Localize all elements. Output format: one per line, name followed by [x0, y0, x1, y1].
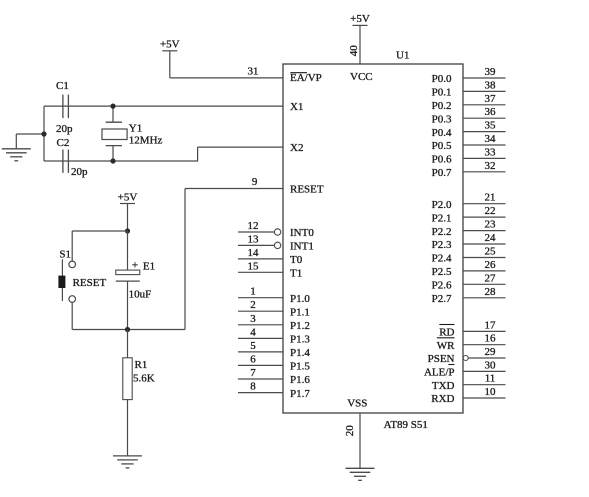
svg-text:P1.0: P1.0	[290, 293, 310, 305]
wire pin 4 (P1.3)	[238, 337, 283, 339]
svg-text:23: 23	[485, 219, 497, 231]
pin name P1.6	[290, 374, 310, 386]
pin name X1	[290, 101, 303, 113]
wire pin 17 (RD)	[463, 330, 506, 332]
svg-text:28: 28	[485, 286, 497, 298]
svg-text:39: 39	[485, 66, 497, 78]
svg-text:35: 35	[485, 120, 497, 132]
pin name P0.0	[432, 73, 452, 85]
pin name RD	[439, 325, 454, 339]
wire pin 16 (WR)	[463, 344, 506, 346]
wire pin 3 (P1.2)	[238, 324, 283, 326]
svg-text:P1.1: P1.1	[290, 306, 310, 318]
svg-text:X1: X1	[290, 101, 303, 113]
value 20p (C2)	[71, 166, 88, 178]
wire pin 23 (P2.2)	[463, 230, 506, 232]
svg-text:P0.4: P0.4	[432, 127, 452, 139]
svg-text:5.6K: 5.6K	[133, 372, 155, 384]
wire pin 22 (P2.1)	[463, 216, 506, 218]
svg-text:RESET: RESET	[73, 277, 107, 289]
wire EA/VP pin 31	[170, 77, 283, 79]
pin name X2	[290, 142, 303, 154]
svg-text:+5V: +5V	[118, 192, 138, 204]
wire pin 39 (P0.0)	[463, 77, 506, 79]
svg-text:P0.0: P0.0	[432, 73, 452, 85]
pin number 24	[485, 232, 497, 244]
label Y1	[129, 123, 142, 135]
pin number 13	[248, 233, 260, 245]
label VCC	[350, 71, 373, 83]
wire pin 38 (P0.1)	[463, 90, 506, 92]
wire pin 8 (P1.7)	[238, 392, 283, 394]
svg-text:26: 26	[485, 259, 497, 271]
pin name P1.7	[290, 388, 310, 400]
svg-text:S1: S1	[59, 248, 71, 260]
pin number 14	[248, 247, 260, 259]
svg-text:P2.2: P2.2	[432, 226, 452, 238]
svg-text:PSEN: PSEN	[428, 353, 455, 365]
wire pin 2 (P1.1)	[238, 310, 283, 312]
wire E1 bottom stem	[127, 281, 129, 329]
label C1	[56, 80, 69, 92]
wire ground tap vertical	[15, 134, 17, 149]
wire ground tap horizontal	[16, 133, 44, 135]
svg-text:P2.4: P2.4	[432, 253, 452, 265]
pin number 30	[485, 359, 497, 371]
power +5V (EA/VP)	[160, 39, 180, 51]
svg-text:6: 6	[250, 353, 256, 365]
pin name P1.0	[290, 293, 310, 305]
wire pin 33 (P0.6)	[463, 157, 506, 159]
wire pin 12 (INT0)	[238, 231, 274, 233]
wire pin 11 (TXD)	[463, 384, 506, 386]
svg-text:36: 36	[485, 106, 497, 118]
pin 29 inversion bubble	[463, 356, 468, 361]
svg-text:INT0: INT0	[290, 227, 314, 239]
svg-text:24: 24	[485, 232, 497, 244]
svg-text:37: 37	[485, 93, 497, 105]
svg-text:5: 5	[250, 340, 256, 352]
svg-text:VSS: VSS	[347, 398, 367, 410]
pin number 5	[250, 340, 256, 352]
svg-text:29: 29	[485, 346, 497, 358]
label S1	[59, 248, 71, 260]
svg-text:12MHz: 12MHz	[129, 134, 163, 146]
pin number 11	[485, 373, 496, 385]
wire pin 32 (P0.7)	[463, 171, 506, 173]
svg-text:13: 13	[248, 233, 260, 245]
svg-text:1: 1	[250, 286, 256, 298]
pin number 3	[250, 313, 256, 325]
svg-text:EA/VP: EA/VP	[290, 72, 322, 84]
wire pin 10 (RXD)	[463, 397, 506, 399]
wire pin 25 (P2.4)	[463, 257, 506, 259]
wire X2 step vertical	[197, 147, 199, 161]
svg-text:C2: C2	[57, 137, 70, 149]
wire pin 24 (P2.3)	[463, 243, 506, 245]
ground (VSS)	[346, 468, 375, 480]
svg-text:P0.7: P0.7	[432, 167, 452, 179]
svg-text:P1.7: P1.7	[290, 388, 310, 400]
power +5V (VCC)	[350, 13, 370, 26]
svg-text:P1.4: P1.4	[290, 347, 310, 359]
svg-text:30: 30	[485, 359, 497, 371]
svg-text:4: 4	[250, 326, 256, 338]
wire E1 top stem	[127, 231, 129, 270]
label AT89S51	[384, 419, 428, 431]
pin name P2.7	[432, 293, 452, 305]
pin name WR	[437, 338, 455, 352]
node reset bottom junction	[125, 327, 130, 332]
svg-text:RD: RD	[439, 327, 454, 339]
svg-text:7: 7	[250, 367, 256, 379]
pin number 37	[485, 93, 497, 105]
svg-text:Y1: Y1	[129, 123, 142, 135]
pin number 21	[485, 192, 496, 204]
svg-text:P2.3: P2.3	[432, 239, 452, 251]
wire X2 net bottom horizontal	[44, 160, 198, 162]
svg-text:10: 10	[485, 386, 497, 398]
pin number 29	[485, 346, 497, 358]
pin name PSEN	[428, 353, 455, 365]
wire pin 29 (PSEN)	[468, 357, 505, 359]
svg-text:P2.6: P2.6	[432, 280, 452, 292]
svg-text:T1: T1	[290, 268, 302, 280]
capacitor C1	[63, 95, 69, 119]
label RESET (switch)	[73, 277, 107, 289]
svg-text:P2.5: P2.5	[432, 266, 452, 278]
pin name P0.6	[432, 154, 452, 166]
wire switch bottom vertical	[71, 302, 73, 329]
svg-text:27: 27	[485, 272, 497, 284]
wire pin 21 (P2.0)	[463, 203, 506, 205]
pin number 26	[485, 259, 497, 271]
svg-text:RESET: RESET	[290, 184, 324, 196]
pin number 33	[485, 146, 497, 158]
svg-text:8: 8	[250, 381, 256, 393]
svg-text:10uF: 10uF	[129, 289, 152, 301]
wire X2 horizontal to IC	[198, 146, 283, 148]
pin number 8	[250, 381, 256, 393]
pin name P2.6	[432, 280, 452, 292]
pin number 16	[485, 333, 497, 345]
wire VCC pin 40 stem	[359, 25, 361, 64]
pin number 34	[485, 133, 497, 145]
wire R1 bottom stem	[127, 400, 129, 456]
svg-text:R1: R1	[135, 359, 148, 371]
wire pin 34 (P0.5)	[463, 144, 506, 146]
wire bottom junction horizontal	[72, 329, 185, 331]
resistor R1	[123, 358, 132, 400]
svg-text:20p: 20p	[56, 123, 73, 135]
pin name RXD	[431, 393, 454, 405]
pin name EA/VP	[290, 72, 322, 84]
svg-text:P0.2: P0.2	[432, 100, 452, 112]
node reset top junction	[125, 228, 130, 233]
pin name T1	[290, 268, 302, 280]
svg-text:38: 38	[485, 79, 497, 91]
label R1	[135, 359, 148, 371]
svg-text:+5V: +5V	[160, 39, 180, 51]
pin number 10	[485, 386, 497, 398]
label E1	[143, 261, 155, 273]
pin name INT0	[290, 227, 314, 239]
pin name P2.2	[432, 226, 452, 238]
crystal Y1	[102, 106, 127, 161]
wire pin 13 (INT1)	[238, 244, 274, 246]
pin name P1.5	[290, 361, 310, 373]
wire +5V stem to EA/VP	[169, 51, 171, 78]
wire RESET vertical	[184, 189, 186, 330]
svg-text:+: +	[132, 259, 138, 271]
svg-text:T0: T0	[290, 254, 303, 266]
svg-text:16: 16	[485, 333, 497, 345]
svg-text:X2: X2	[290, 142, 303, 154]
pin name P2.5	[432, 266, 452, 278]
switch S1	[58, 259, 75, 302]
svg-text:U1: U1	[396, 50, 409, 62]
value 10uF	[129, 289, 152, 301]
svg-text:2: 2	[250, 299, 256, 311]
svg-text:20p: 20p	[71, 166, 88, 178]
ground (R1)	[113, 456, 142, 468]
svg-text:17: 17	[485, 319, 497, 331]
pin number 35	[485, 120, 497, 132]
svg-text:C1: C1	[56, 80, 69, 92]
value 5.6K	[133, 372, 155, 384]
ground (oscillator)	[2, 149, 31, 161]
wire left vertical (C1/C2 ground side)	[43, 106, 45, 161]
svg-text:E1: E1	[143, 261, 155, 273]
svg-text:21: 21	[485, 192, 496, 204]
power +5V (reset)	[118, 192, 138, 204]
wire VSS pin 20 stem	[359, 413, 361, 468]
wire pin 1 (P1.0)	[238, 297, 283, 299]
svg-text:P0.3: P0.3	[432, 113, 452, 125]
node crystal bottom junction	[110, 158, 115, 163]
wire switch top vertical	[71, 231, 73, 261]
pin number 39	[485, 66, 497, 78]
pin name P1.3	[290, 334, 310, 346]
wire RESET pin 9	[185, 188, 283, 190]
label VSS	[347, 398, 367, 410]
svg-text:P2.7: P2.7	[432, 293, 452, 305]
pin name P0.5	[432, 140, 452, 152]
pin number 6	[250, 353, 256, 365]
svg-text:25: 25	[485, 246, 497, 258]
pin name P2.1	[432, 212, 452, 224]
pin number 27	[485, 272, 497, 284]
pin number 28	[485, 286, 497, 298]
svg-text:14: 14	[248, 247, 260, 259]
wire pin 5 (P1.4)	[238, 351, 283, 353]
svg-text:WR: WR	[437, 340, 455, 352]
svg-text:P0.5: P0.5	[432, 140, 452, 152]
pin name P2.3	[432, 239, 452, 251]
wire pin 7 (P1.6)	[238, 378, 283, 380]
svg-text:P1.5: P1.5	[290, 361, 310, 373]
pin number 32	[485, 160, 496, 172]
svg-text:P2.1: P2.1	[432, 212, 452, 224]
pin number 15	[248, 260, 260, 272]
wire pin 35 (P0.4)	[463, 131, 506, 133]
pin name P0.1	[432, 87, 452, 99]
svg-text:+5V: +5V	[350, 13, 370, 25]
capacitor E1 (electrolytic)	[116, 270, 140, 281]
wire +5V stem (reset)	[127, 204, 129, 232]
svg-text:22: 22	[485, 205, 496, 217]
pin name P2.0	[432, 199, 452, 211]
svg-text:P0.6: P0.6	[432, 154, 452, 166]
svg-text:33: 33	[485, 146, 497, 158]
pin name TXD	[432, 380, 455, 392]
pin number 31	[248, 66, 259, 78]
value 20p (C1)	[56, 123, 73, 135]
wire pin 26 (P2.5)	[463, 270, 506, 272]
value 12MHz	[129, 134, 163, 146]
pin name P0.7	[432, 167, 452, 179]
svg-text:P2.0: P2.0	[432, 199, 452, 211]
svg-text:INT1: INT1	[290, 241, 314, 253]
polarity + (E1)	[132, 259, 138, 271]
pin number 2	[250, 299, 256, 311]
pin name P0.4	[432, 127, 452, 139]
wire pin 28 (P2.7)	[463, 297, 506, 299]
pin name T0	[290, 254, 303, 266]
pin number 23	[485, 219, 497, 231]
svg-text:P0.1: P0.1	[432, 87, 452, 99]
IC U1 body AT89S51	[283, 64, 463, 413]
svg-text:P1.2: P1.2	[290, 320, 310, 332]
svg-text:32: 32	[485, 160, 496, 172]
wire pin 36 (P0.3)	[463, 117, 506, 119]
svg-text:11: 11	[485, 373, 496, 385]
pin 12 inversion bubble	[274, 229, 280, 235]
pin name INT1	[290, 241, 314, 253]
svg-text:20: 20	[344, 425, 356, 437]
pin number 9	[252, 176, 258, 188]
label U1	[396, 50, 409, 62]
node junction left vertical/ground	[41, 131, 46, 136]
svg-text:15: 15	[248, 260, 260, 272]
pin name P2.4	[432, 253, 452, 265]
pin number 25	[485, 246, 497, 258]
pin number 4	[250, 326, 256, 338]
pin name ALE/P	[424, 365, 455, 379]
label C2	[57, 137, 70, 149]
svg-text:12: 12	[248, 220, 259, 232]
svg-text:RXD: RXD	[431, 393, 454, 405]
svg-text:TXD: TXD	[432, 380, 455, 392]
pin name P1.1	[290, 306, 310, 318]
svg-text:40: 40	[348, 45, 360, 57]
svg-text:ALE/P: ALE/P	[424, 367, 455, 379]
wire pin 14 (T0)	[238, 258, 283, 260]
svg-text:P1.6: P1.6	[290, 374, 310, 386]
wire X1 net horizontal	[44, 105, 283, 107]
svg-text:VCC: VCC	[350, 71, 373, 83]
svg-text:P1.3: P1.3	[290, 334, 310, 346]
pin number 38	[485, 79, 497, 91]
wire top junction to switch	[72, 230, 127, 232]
pin number 1	[250, 286, 256, 298]
pin number 12	[248, 220, 259, 232]
svg-text:31: 31	[248, 66, 259, 78]
pin number 22	[485, 205, 496, 217]
pin name P1.4	[290, 347, 310, 359]
pin name P0.3	[432, 113, 452, 125]
pin number 20 (rotated)	[344, 425, 356, 437]
svg-text:9: 9	[252, 176, 258, 188]
pin number 40 (rotated)	[348, 45, 360, 57]
wire R1 top stem	[127, 330, 129, 358]
pin name P1.2	[290, 320, 310, 332]
wire pin 6 (P1.5)	[238, 364, 283, 366]
svg-text:AT89 S51: AT89 S51	[384, 419, 428, 431]
svg-text:3: 3	[250, 313, 256, 325]
capacitor C2	[63, 150, 69, 173]
pin name P0.2	[432, 100, 452, 112]
pin name RESET	[290, 184, 324, 196]
pin 13 inversion bubble	[274, 242, 280, 248]
wire pin 37 (P0.2)	[463, 104, 506, 106]
wire pin 30 (ALE/P)	[463, 370, 506, 372]
wire pin 27 (P2.6)	[463, 283, 506, 285]
wire pin 15 (T1)	[238, 271, 283, 273]
pin number 7	[250, 367, 256, 379]
pin number 17	[485, 319, 497, 331]
svg-text:34: 34	[485, 133, 497, 145]
pin number 36	[485, 106, 497, 118]
node crystal top junction	[110, 104, 115, 109]
